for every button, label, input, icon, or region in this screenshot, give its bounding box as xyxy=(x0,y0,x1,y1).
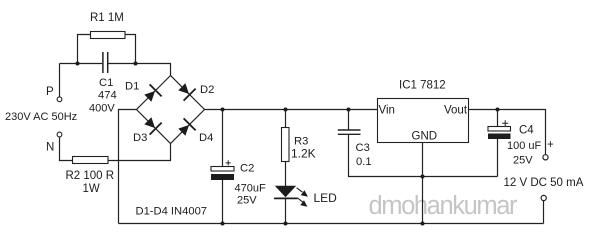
diode D2 xyxy=(176,81,196,101)
svg-text:R2 100 R: R2 100 R xyxy=(66,170,115,182)
svg-text:N: N xyxy=(46,142,54,154)
svg-text:dmohankumar: dmohankumar xyxy=(369,192,519,220)
wire: top AC wire from P corner to C1 left plate xyxy=(60,63,103,65)
resistor R1 xyxy=(78,35,91,64)
svg-text:C3: C3 xyxy=(356,142,370,154)
plus mark C4 xyxy=(502,120,508,126)
wire: N terminal drop to R2 xyxy=(60,137,73,160)
svg-text:25V: 25V xyxy=(237,195,257,207)
node junction C2 bottom xyxy=(221,222,225,226)
wire: minus terminal drop xyxy=(543,201,545,224)
svg-text:LED: LED xyxy=(314,191,338,205)
terminal plus circle xyxy=(543,155,548,160)
svg-text:1.2K: 1.2K xyxy=(291,147,316,161)
node junction R1 left xyxy=(76,62,80,66)
capacitor C2 xyxy=(222,110,224,167)
svg-text:D1: D1 xyxy=(125,81,139,93)
svg-text:+: + xyxy=(547,139,554,151)
svg-text:C1: C1 xyxy=(99,77,113,89)
node junction GND and C3 rail xyxy=(421,175,425,179)
terminal N circle xyxy=(57,132,62,137)
node junction R1 right xyxy=(134,62,138,66)
capacitor C1 xyxy=(102,52,104,73)
wire: Vout to output plus terminal xyxy=(469,110,546,155)
node junction LED bottom xyxy=(284,222,288,226)
svg-text:400V: 400V xyxy=(89,103,115,115)
svg-text:Vin: Vin xyxy=(379,105,395,117)
bridge rectifier diamond xyxy=(137,76,205,144)
node junction C3 top xyxy=(347,108,351,112)
wire: GND pin drop to ground rail xyxy=(422,143,424,224)
svg-text:GND: GND xyxy=(412,131,438,143)
svg-text:P: P xyxy=(46,86,54,98)
svg-text:100 uF: 100 uF xyxy=(507,140,542,152)
regulator IC1 7812 box xyxy=(378,99,469,143)
svg-text:0.1: 0.1 xyxy=(356,156,372,168)
node junction R3 top xyxy=(284,108,288,112)
plus mark C2 xyxy=(226,160,231,165)
svg-text:1W: 1W xyxy=(83,183,100,195)
svg-text:D2: D2 xyxy=(200,84,214,96)
wire: R2 to bridge bottom vertex xyxy=(108,144,171,161)
svg-text:D3: D3 xyxy=(133,132,147,144)
LED xyxy=(275,186,296,197)
resistor R3 xyxy=(285,110,287,128)
capacitor C3 xyxy=(348,110,350,130)
node junction GND bottom xyxy=(421,222,425,226)
svg-text:IC1 7812: IC1 7812 xyxy=(399,80,446,92)
LED light arrows xyxy=(297,188,307,206)
diode D4 xyxy=(176,118,196,138)
svg-text:C4: C4 xyxy=(519,125,534,137)
wire: bridge negative output to bottom rail xyxy=(119,110,137,224)
node junction C4 top xyxy=(496,108,500,112)
wire: top AC wire from C1 right plate to bridge top drop xyxy=(107,64,170,76)
terminal P circle xyxy=(57,97,62,102)
svg-text:D1-D4 IN4007: D1-D4 IN4007 xyxy=(136,206,208,218)
svg-text:470uF: 470uF xyxy=(235,183,266,195)
svg-text:25V: 25V xyxy=(513,155,533,167)
wire: bottom ground rail xyxy=(119,223,544,225)
resistor R2 xyxy=(73,157,109,164)
svg-text:C2: C2 xyxy=(240,163,254,175)
svg-text:R1 1M: R1 1M xyxy=(90,12,124,24)
wire: P terminal drop xyxy=(59,64,61,97)
node junction C2 top xyxy=(221,108,225,112)
capacitor C4 xyxy=(497,110,499,127)
svg-text:12 V DC 50 mA: 12 V DC 50 mA xyxy=(504,177,584,189)
svg-text:D4: D4 xyxy=(199,132,213,144)
svg-text:230V AC 50Hz: 230V AC 50Hz xyxy=(5,111,77,123)
svg-text:Vout: Vout xyxy=(444,105,468,117)
wire: bridge positive rail to IC Vin xyxy=(205,109,378,111)
svg-text:474: 474 xyxy=(98,90,117,102)
diode D3 xyxy=(142,115,162,135)
diode D1 xyxy=(142,84,162,104)
terminal minus circle xyxy=(541,195,546,200)
